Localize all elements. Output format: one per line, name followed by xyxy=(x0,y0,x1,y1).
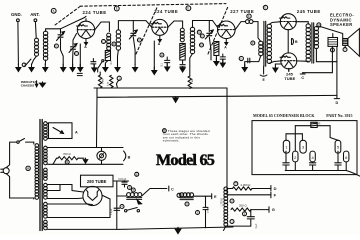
node K (circled) xyxy=(51,8,56,13)
svg-text:B: B xyxy=(66,160,68,164)
wire block exit xyxy=(346,171,360,177)
wire xyxy=(113,180,129,182)
screen resistor xyxy=(180,44,185,61)
wire xyxy=(253,22,261,42)
svg-text:2 MΩ: 2 MΩ xyxy=(102,78,104,84)
tap switch xyxy=(22,59,31,67)
wire xyxy=(46,29,60,32)
arrow tap xyxy=(78,158,88,163)
label A xyxy=(75,131,78,135)
terminal F xyxy=(271,192,277,198)
svg-text:CHASSIS: CHASSIS xyxy=(21,84,34,88)
label GND. xyxy=(11,12,22,17)
wire xyxy=(60,39,62,51)
condenser 3 xyxy=(300,140,306,153)
wire xyxy=(101,160,103,164)
wire xyxy=(215,56,217,61)
svg-text:1,770 Ω: 1,770 Ω xyxy=(220,198,223,207)
svg-text:A: A xyxy=(158,42,161,46)
shield partition top (dashed line) xyxy=(80,4,226,7)
wire block top2 xyxy=(317,126,338,141)
link arrow xyxy=(53,128,64,134)
svg-text:TUBE: TUBE xyxy=(284,76,295,81)
pilot lamp xyxy=(97,151,106,160)
wire xyxy=(316,27,342,39)
label DYNAMIC xyxy=(330,17,352,22)
node circled xyxy=(75,52,79,56)
terminal GND xyxy=(17,19,20,22)
wire c1-c3 link xyxy=(286,133,302,135)
capacitor sym 1 xyxy=(283,151,289,170)
RF coil secondary xyxy=(43,31,47,60)
svg-text:A: A xyxy=(75,131,78,135)
label 1,770 Ω xyxy=(220,198,223,207)
label 4 µF xyxy=(255,223,258,228)
bus wire B+ xyxy=(94,87,227,89)
wire xyxy=(245,55,261,67)
svg-text:3: 3 xyxy=(302,144,305,149)
svg-text:F: F xyxy=(139,38,141,42)
switch arm xyxy=(98,60,104,72)
label A xyxy=(224,46,227,50)
wire cathode to ground xyxy=(79,44,81,67)
hum coil xyxy=(224,187,228,226)
chassis ground xyxy=(220,60,225,68)
bypass capacitor xyxy=(77,73,82,75)
capacitor sym 4 xyxy=(309,162,315,171)
wire xyxy=(132,21,134,32)
grid return resistor xyxy=(188,76,191,89)
node circled xyxy=(137,38,141,42)
svg-text:2 MΩ: 2 MΩ xyxy=(192,78,194,84)
cathode lead xyxy=(85,39,88,45)
screen resistor xyxy=(105,51,110,61)
chassis ground xyxy=(152,67,157,75)
terminal G xyxy=(269,207,275,213)
node circled xyxy=(117,76,121,80)
node circled xyxy=(114,6,119,11)
title Model 65 xyxy=(156,151,215,169)
wire xyxy=(101,148,103,152)
node circled xyxy=(230,199,234,203)
shield partition (dashed line) xyxy=(55,7,80,26)
svg-text:G: G xyxy=(272,207,275,212)
wire xyxy=(275,64,282,66)
AC plug xyxy=(1,168,9,174)
wire cathode 245 xyxy=(288,68,290,71)
chassis ground xyxy=(214,58,219,66)
terminal C xyxy=(169,186,174,191)
node circled xyxy=(263,5,267,9)
svg-text:2.0 µF: 2.0 µF xyxy=(111,208,113,215)
wire field to D xyxy=(336,46,338,98)
svg-text:SPEAKER: SPEAKER xyxy=(330,22,353,27)
wire xyxy=(142,189,167,197)
svg-text:F: F xyxy=(274,193,277,198)
wire filament xyxy=(48,203,93,206)
node circled xyxy=(200,34,204,38)
node circled xyxy=(131,188,135,192)
wire plug bottom xyxy=(6,174,34,199)
wire xyxy=(48,147,124,149)
grid cap wire xyxy=(61,16,87,29)
note circled B xyxy=(163,129,167,133)
note text line4 xyxy=(163,139,180,143)
RF transformer primary xyxy=(107,33,111,50)
wire xyxy=(252,188,271,190)
node circled xyxy=(234,182,238,186)
svg-text:PART No. 3915: PART No. 3915 xyxy=(326,113,352,118)
chassis arrow thin xyxy=(35,81,38,87)
center tap wire xyxy=(263,66,265,74)
svg-text:T: T xyxy=(344,48,346,52)
interstage transformer secondary xyxy=(267,24,271,63)
capacitor xyxy=(248,58,250,63)
output transformer primary xyxy=(306,24,310,62)
node circled xyxy=(200,43,204,47)
wire xyxy=(224,226,226,230)
svg-text:2,000 Ω: 2,000 Ω xyxy=(241,183,251,187)
capacitor 1 µF xyxy=(203,196,208,213)
capacitor 2 µF xyxy=(114,208,120,210)
tuning capacitor (variable) xyxy=(57,32,65,41)
label 224 TUBE xyxy=(154,9,178,14)
wire xyxy=(193,21,218,28)
wire xyxy=(250,219,252,226)
resistor 200 xyxy=(231,208,251,211)
svg-text:E: E xyxy=(214,195,217,199)
chassis ground xyxy=(273,66,278,72)
field coil xyxy=(328,38,338,47)
chassis ground xyxy=(180,67,185,73)
wire xyxy=(208,21,210,32)
bus wire AVC xyxy=(97,95,337,97)
wire xyxy=(48,122,49,124)
wire xyxy=(294,126,296,151)
label 200 Ω xyxy=(239,204,247,208)
wire xyxy=(117,50,120,67)
wire xyxy=(209,37,211,60)
terminal E xyxy=(260,75,267,82)
wire xyxy=(193,195,211,197)
svg-text:ANT.: ANT. xyxy=(30,12,40,17)
label INDICATES xyxy=(21,80,37,84)
tuning capacitor stage2 (variable) xyxy=(129,30,137,39)
chassis ground xyxy=(78,64,83,72)
condenser block box xyxy=(252,121,357,175)
filter choke 1 xyxy=(127,193,142,200)
label 245 TUBE xyxy=(284,71,295,81)
wire xyxy=(53,158,58,164)
node circled xyxy=(177,193,181,197)
svg-text:D: D xyxy=(274,186,277,191)
shield partition (dashed line) xyxy=(208,7,228,55)
label 2,000 Ω xyxy=(241,183,251,187)
wire xyxy=(44,60,46,65)
wire xyxy=(118,21,151,30)
wire plug top xyxy=(6,142,16,168)
svg-text:4 µF: 4 µF xyxy=(255,223,258,228)
node circled xyxy=(135,172,139,176)
svg-text:0.1: 0.1 xyxy=(161,63,164,67)
wire HT xyxy=(48,185,61,191)
wire filter vertical xyxy=(116,181,118,229)
bias tap B xyxy=(292,39,299,45)
chassis ground xyxy=(61,64,66,72)
link box xyxy=(49,123,73,139)
wire xyxy=(61,50,64,67)
wire c1 up xyxy=(285,134,287,141)
label ANT. xyxy=(30,12,40,17)
condenser 5 xyxy=(335,140,341,153)
label 0.1 MΩ xyxy=(110,61,113,65)
svg-text:K: K xyxy=(240,57,242,61)
node circled xyxy=(186,6,191,11)
node circled xyxy=(330,48,334,52)
svg-text:1: 1 xyxy=(285,144,288,149)
wire plate V4 xyxy=(295,22,308,24)
chassis ground xyxy=(173,97,178,103)
tube V3 227 xyxy=(217,21,236,39)
wire c3 up xyxy=(301,134,303,141)
output transformer secondary xyxy=(314,27,318,49)
svg-text:G: G xyxy=(75,52,77,56)
wire xyxy=(190,54,193,77)
node circled xyxy=(247,14,251,18)
label A xyxy=(84,45,87,49)
svg-text:224 TUBE: 224 TUBE xyxy=(83,10,107,15)
wire bus right xyxy=(227,88,233,195)
capacitor sym 5 xyxy=(335,151,341,170)
node circled xyxy=(251,41,255,45)
chassis ground xyxy=(165,64,170,72)
antenna coil primary xyxy=(35,38,39,56)
tube V4 245 xyxy=(280,14,297,30)
svg-text:0.1: 0.1 xyxy=(110,61,113,65)
secondary winding 6 xyxy=(44,220,48,230)
wire xyxy=(34,22,37,38)
wire grid V4 xyxy=(269,22,280,25)
wire grid V5 xyxy=(269,61,281,63)
tube V6 280 xyxy=(83,186,102,205)
wire xyxy=(72,50,74,66)
bias capacitor xyxy=(220,54,225,62)
svg-text:GND.: GND. xyxy=(11,12,22,17)
svg-text:1.0 µF: 1.0 µF xyxy=(207,207,209,214)
node circled xyxy=(160,53,164,57)
node circled xyxy=(128,186,132,190)
chassis ground xyxy=(175,227,181,233)
condenser 4 xyxy=(310,151,315,162)
wire plate xyxy=(168,21,183,28)
chassis ground xyxy=(70,64,75,72)
grid resistor 2 xyxy=(110,75,113,87)
power switch xyxy=(17,139,34,145)
chassis ground xyxy=(29,64,34,72)
hook wire xyxy=(117,81,119,88)
wire xyxy=(48,138,49,140)
note text line1 xyxy=(168,129,210,133)
wire xyxy=(48,197,83,200)
cathode lead xyxy=(225,39,228,45)
svg-text:F: F xyxy=(56,44,58,48)
secondary winding 2 xyxy=(44,146,48,165)
wire c6 down xyxy=(345,162,347,171)
svg-text:P: P xyxy=(252,41,254,45)
wire bottom xyxy=(48,228,120,230)
chassis ground xyxy=(16,64,21,72)
svg-text:B: B xyxy=(295,40,298,44)
node circled xyxy=(343,45,347,51)
svg-text:4: 4 xyxy=(311,155,314,160)
chassis ground xyxy=(103,64,108,72)
transformer core xyxy=(312,23,314,63)
svg-text:2: 2 xyxy=(294,155,297,160)
terminal E xyxy=(212,194,217,200)
wire xyxy=(205,213,207,228)
svg-text:D: D xyxy=(336,101,339,105)
bottom bus xyxy=(119,227,233,229)
chassis ground xyxy=(115,64,120,72)
svg-text:700 Ω: 700 Ω xyxy=(63,152,71,156)
label 700 Ω xyxy=(63,152,71,156)
filter capacitor xyxy=(122,181,127,187)
secondary winding 5 xyxy=(44,202,48,218)
condenser 1 xyxy=(283,140,289,153)
wire xyxy=(105,61,108,67)
svg-text:Model 65: Model 65 xyxy=(156,151,215,169)
terminal D xyxy=(334,99,339,105)
label 245 TUBE xyxy=(297,9,321,14)
chassis ground xyxy=(133,64,138,72)
node circled xyxy=(239,56,243,60)
secondary winding 1 xyxy=(44,122,48,141)
resistor 700 Ω xyxy=(58,157,78,160)
svg-text:5: 5 xyxy=(337,144,340,149)
svg-text:280 TUBE: 280 TUBE xyxy=(87,179,107,184)
bias capacitor xyxy=(165,57,170,66)
node circled xyxy=(120,205,124,209)
voice coil xyxy=(343,39,348,46)
svg-text:E: E xyxy=(187,6,189,10)
node circled xyxy=(102,40,106,44)
wire cathode xyxy=(153,41,155,70)
filter choke 2 xyxy=(180,193,194,200)
wire pilot feed xyxy=(96,97,99,147)
secondary winding 4 xyxy=(44,183,48,199)
wire grid lead xyxy=(60,29,62,34)
power transformer primary xyxy=(35,144,39,200)
svg-text:E: E xyxy=(262,78,265,82)
label box xyxy=(81,175,114,187)
grid leak xyxy=(246,20,254,24)
wire xyxy=(251,209,269,211)
label SPEAKER xyxy=(330,22,353,27)
svg-text:C: C xyxy=(171,187,174,191)
label xyxy=(107,81,109,86)
node circled xyxy=(243,212,247,216)
wire c2 down xyxy=(294,162,296,171)
svg-text:0.25: 0.25 xyxy=(107,81,109,86)
condenser 2 xyxy=(293,151,298,162)
svg-text:6: 6 xyxy=(345,155,348,160)
block bottom bus xyxy=(285,170,346,172)
note text line2 xyxy=(163,132,208,136)
svg-text:schematic.: schematic. xyxy=(163,139,180,143)
power transformer core xyxy=(40,120,42,231)
wire plate wires xyxy=(48,185,84,193)
wire xyxy=(73,34,77,46)
wire xyxy=(316,48,337,61)
wire xyxy=(133,37,135,64)
node circled xyxy=(112,42,116,46)
wire F xyxy=(227,194,271,196)
resistor R xyxy=(311,122,322,128)
RF transformer secondary xyxy=(116,30,120,50)
node circled xyxy=(65,160,69,164)
resistor 2000 xyxy=(233,187,253,190)
wire filament link xyxy=(287,30,289,53)
transformer core xyxy=(264,21,266,66)
label 1.0 µF xyxy=(207,207,209,214)
label MODEL 65 CONDENSER BLOCK PART No. 3915 xyxy=(253,113,353,118)
tube V5 245 xyxy=(280,53,297,69)
node circled xyxy=(54,44,58,48)
cathode lead xyxy=(158,35,161,42)
svg-text:A: A xyxy=(224,46,227,50)
svg-text:R: R xyxy=(318,122,321,126)
svg-text:224 TUBE: 224 TUBE xyxy=(154,9,178,14)
svg-text:F: F xyxy=(201,34,203,38)
label CHASSIS xyxy=(21,84,34,88)
interstage transformer primary xyxy=(259,41,263,56)
wire field down xyxy=(303,46,333,72)
svg-text:C: C xyxy=(301,76,304,80)
svg-text:D: D xyxy=(200,43,202,47)
svg-text:200 Ω: 200 Ω xyxy=(239,204,247,208)
wire xyxy=(32,56,37,65)
svg-text:227 TUBE: 227 TUBE xyxy=(230,9,254,14)
wire block top xyxy=(295,125,311,127)
speaker cone xyxy=(348,29,360,57)
RF transformer2 secondary xyxy=(190,27,194,54)
svg-text:H: H xyxy=(161,53,163,57)
terminal ANT xyxy=(34,19,37,22)
svg-text:C: C xyxy=(198,30,200,34)
RF transformer2 primary xyxy=(180,28,184,42)
node circled xyxy=(197,30,201,34)
svg-text:C: C xyxy=(102,40,104,44)
terminal C xyxy=(300,73,305,80)
shield partition (dashed line) xyxy=(136,8,157,55)
tube V2 224 xyxy=(151,19,168,35)
trimmer capacitor xyxy=(69,44,77,53)
label A xyxy=(158,42,161,46)
capacitor xyxy=(247,210,254,219)
wire xyxy=(182,60,184,64)
wire xyxy=(99,72,101,75)
label 0.1 xyxy=(161,63,164,67)
node circled xyxy=(185,202,189,206)
wire xyxy=(96,88,98,97)
wire xyxy=(117,195,127,197)
tube V1 224 xyxy=(76,19,94,39)
wire xyxy=(235,22,245,30)
secondary winding 3 xyxy=(44,168,48,180)
condenser 6 xyxy=(344,151,349,162)
svg-text:D: D xyxy=(113,42,115,46)
chassis symbol xyxy=(40,82,46,87)
